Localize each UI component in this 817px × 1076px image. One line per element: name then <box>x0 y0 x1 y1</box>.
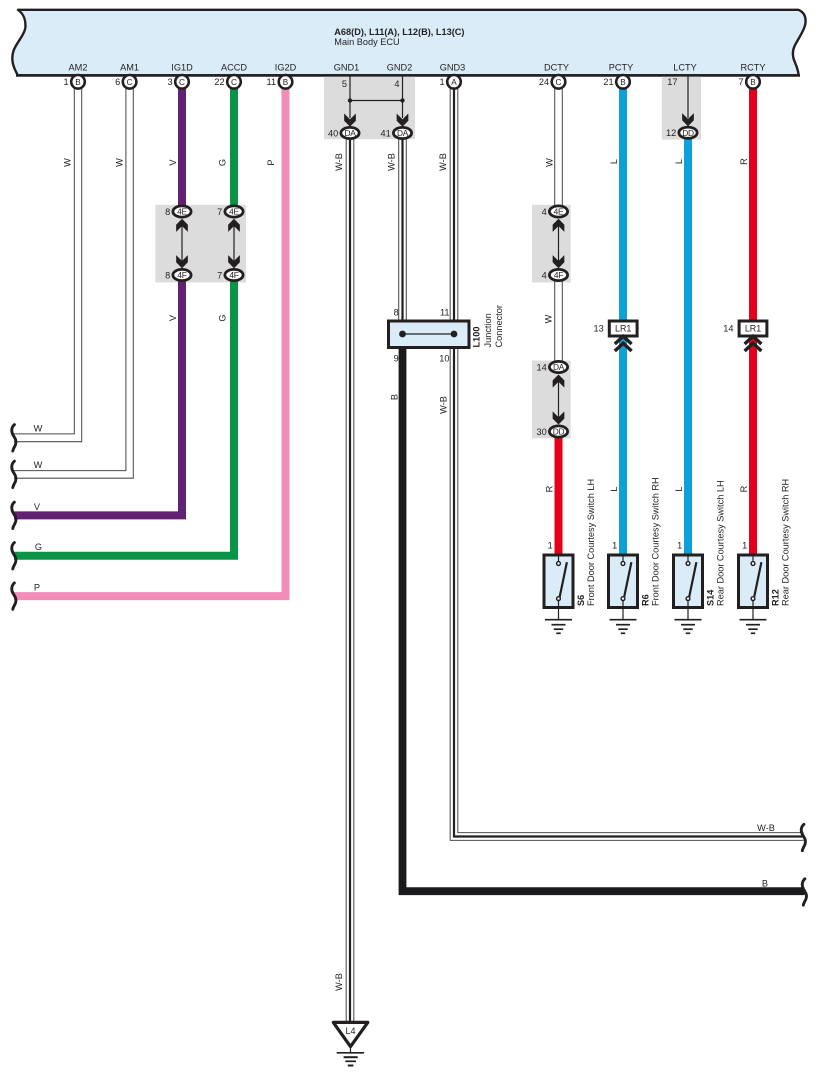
wire AM1 pin 6 white W down then left to frame tear <box>14 86 126 471</box>
ground triangle L4 <box>333 1022 368 1046</box>
svg-text:22: 22 <box>214 77 224 87</box>
svg-text:ACCD: ACCD <box>221 62 247 72</box>
svg-text:24: 24 <box>539 77 549 87</box>
svg-text:W: W <box>34 460 43 470</box>
svg-text:8: 8 <box>165 207 170 217</box>
connector oval DA 41 on GND2 <box>393 127 411 138</box>
svg-text:12: 12 <box>666 128 676 138</box>
svg-text:21: 21 <box>603 77 613 87</box>
svg-text:Junction: Junction <box>483 313 493 347</box>
svg-text:Rear Door Courtesy Switch RH: Rear Door Courtesy Switch RH <box>780 479 790 606</box>
svg-text:DA: DA <box>553 362 565 372</box>
svg-text:GND3: GND3 <box>440 62 466 72</box>
svg-text:L: L <box>609 486 619 491</box>
arrow pair between 4E and 4F at x=558.5 <box>558 222 560 265</box>
switch S14 box <box>674 555 703 608</box>
wire GND2 W-B from DA 41 down to junction connector L100 pin 8 <box>398 139 400 321</box>
svg-text:IG2D: IG2D <box>275 62 297 72</box>
switch R12 lever <box>754 562 761 597</box>
svg-text:1: 1 <box>63 77 68 87</box>
switch S6 box <box>544 555 573 608</box>
switch R12 bottom contact circle <box>751 597 755 601</box>
arrow into connector DA 41 <box>397 114 409 127</box>
svg-text:C: C <box>231 78 237 87</box>
switch S6 top contact lead <box>558 556 560 562</box>
wire GND1 pin 5 thin lead into DA connector <box>349 77 351 119</box>
svg-text:4F: 4F <box>554 270 563 280</box>
shield box around DCTY DA DD connectors <box>532 361 571 439</box>
svg-text:L: L <box>674 486 684 491</box>
junction dot L100 pin 8-9 <box>399 331 406 338</box>
switch R6 bottom contact circle <box>621 597 625 601</box>
svg-text:P: P <box>34 583 40 593</box>
svg-text:A68(D), L11(A), L12(B), L13(C): A68(D), L11(A), L12(B), L13(C) <box>334 27 464 37</box>
connector oval 4E pin 4 on DCTY <box>549 206 567 217</box>
svg-text:L100: L100 <box>471 327 481 348</box>
wire RCTY pin 7 red R down to switch R12 <box>749 86 757 556</box>
terminal PCTY pin 21 circle B <box>616 75 630 89</box>
switch R12 top contact circle <box>751 562 755 566</box>
svg-text:41: 41 <box>380 128 390 138</box>
svg-text:R: R <box>739 485 749 492</box>
svg-text:Front Door Courtesy Switch RH: Front Door Courtesy Switch RH <box>650 477 660 606</box>
wire DCTY white W middle segment 4F to DA <box>554 281 556 362</box>
svg-text:W-B: W-B <box>439 396 449 414</box>
switch S6 top contact circle <box>557 562 561 566</box>
svg-text:B: B <box>75 78 81 87</box>
svg-text:1: 1 <box>548 540 553 550</box>
svg-text:AM1: AM1 <box>120 62 139 72</box>
wire GND3 pin 1 W-B down to junction connector L100 pin 11 <box>449 86 451 334</box>
svg-text:B: B <box>762 878 768 888</box>
svg-text:L: L <box>609 159 619 164</box>
svg-text:GND2: GND2 <box>387 62 413 72</box>
svg-text:V: V <box>34 502 41 512</box>
svg-text:W: W <box>34 423 43 433</box>
ground symbol below L4 <box>337 1052 364 1054</box>
wire DCTY pin 24 white W upper segment <box>554 86 556 206</box>
svg-text:DA: DA <box>397 128 409 138</box>
connector oval 4E pin 7 on ACCD <box>225 206 243 217</box>
frame tear W-B wire right <box>801 824 805 850</box>
switch R6 box <box>609 555 638 608</box>
arrow into connector DA 40 <box>344 114 356 127</box>
terminal AM2 pin 1 circle B <box>71 75 85 89</box>
svg-text:B: B <box>283 78 289 87</box>
svg-text:C: C <box>179 78 185 87</box>
terminal IG2D pin 11 circle B <box>279 75 293 89</box>
switch S14 lever <box>689 562 696 597</box>
svg-text:W: W <box>63 158 73 167</box>
switch S14 bottom contact circle <box>686 597 690 601</box>
svg-text:Main Body ECU: Main Body ECU <box>334 37 399 47</box>
terminal ACCD pin 22 circle C <box>227 75 241 89</box>
shield box around LCTY pin 17 and DD connector <box>662 77 701 140</box>
svg-text:4: 4 <box>542 207 547 217</box>
wire GND2 pin 4 thin lead into DA connector <box>402 77 404 119</box>
ground L4 stem <box>350 1047 352 1053</box>
svg-text:L: L <box>674 159 684 164</box>
svg-text:7: 7 <box>217 207 222 217</box>
double chevron below LR1 pin 14 <box>745 336 762 344</box>
junction dot GND1 tie <box>348 98 352 102</box>
connector oval DA 40 on GND1 <box>341 127 359 138</box>
svg-text:C: C <box>556 78 562 87</box>
frame tear IG2D P wire <box>12 583 16 609</box>
shield box around IG1D ACCD 4E 4F connectors <box>155 205 246 283</box>
svg-text:S14: S14 <box>705 589 715 606</box>
svg-text:R: R <box>545 485 555 492</box>
ECU bottom edge line <box>16 74 800 77</box>
svg-text:5: 5 <box>342 79 347 89</box>
svg-text:13: 13 <box>593 324 603 334</box>
switch R6 top contact lead <box>622 556 624 562</box>
svg-text:6: 6 <box>115 77 120 87</box>
terminal IG1D pin 3 circle C <box>175 75 189 89</box>
switch R6 lever <box>624 562 631 597</box>
svg-text:7: 7 <box>217 270 222 280</box>
svg-text:DCTY: DCTY <box>544 62 569 72</box>
svg-text:IG1D: IG1D <box>171 62 193 72</box>
svg-text:W-B: W-B <box>334 153 344 171</box>
switch R12 top contact lead <box>752 556 754 562</box>
switch S6 bottom contact circle <box>557 597 561 601</box>
frame tear IG1D V wire <box>12 502 16 528</box>
wire W-B from L100 pin 10 down then right to frame tear <box>450 334 803 840</box>
svg-text:W-B: W-B <box>334 973 344 991</box>
svg-text:30: 30 <box>536 427 546 437</box>
svg-text:S6: S6 <box>576 595 586 606</box>
svg-text:4: 4 <box>394 79 399 89</box>
svg-text:9: 9 <box>394 354 399 364</box>
svg-text:R: R <box>739 158 749 165</box>
connector oval 4F pin 7 on ACCD <box>225 269 243 280</box>
switch S6 lever <box>560 562 567 597</box>
ECU connector box A68(D) L11(A) L12(B) L13(C) Main Body ECU <box>12 10 805 76</box>
junction connector L100 box <box>389 321 470 348</box>
svg-text:11: 11 <box>440 308 450 318</box>
svg-text:G: G <box>218 159 228 166</box>
switch R12 box <box>739 555 768 608</box>
wire LCTY pin 17 thin lead into DD connector <box>687 77 689 119</box>
svg-text:DA: DA <box>344 128 356 138</box>
svg-text:Connector: Connector <box>494 305 504 347</box>
svg-text:W-B: W-B <box>757 823 775 833</box>
svg-text:14: 14 <box>536 362 546 372</box>
svg-text:B: B <box>750 78 756 87</box>
svg-text:P: P <box>266 159 276 165</box>
svg-text:7: 7 <box>738 77 743 87</box>
svg-text:V: V <box>168 159 178 166</box>
svg-text:3: 3 <box>167 77 172 87</box>
svg-text:C: C <box>127 78 133 87</box>
svg-text:B: B <box>390 394 400 400</box>
frame tear B wire right <box>802 879 806 905</box>
wire ACCD green G lower segment down then left to frame tear <box>14 281 234 556</box>
junction dot L100 pin 10-11 <box>451 331 458 338</box>
connector LR1 pin 14 <box>739 321 767 336</box>
L100 internal bus line <box>403 333 455 335</box>
wire ACCD pin 22 green G upper segment <box>230 86 238 206</box>
shield box around GND1 GND2 pins and DA connectors <box>324 77 415 139</box>
svg-text:4: 4 <box>542 270 547 280</box>
tie line between GND1 and GND2 leads <box>350 100 403 102</box>
svg-text:RCTY: RCTY <box>740 62 765 72</box>
connector oval DD 12 on LCTY <box>679 127 697 138</box>
svg-text:W: W <box>544 314 554 323</box>
ground symbol below S6 <box>545 619 572 621</box>
arrow pair between DA 14 and DD 30 <box>558 378 560 421</box>
connector oval DD 30 on DCTY <box>549 426 567 437</box>
svg-text:LR1: LR1 <box>745 324 761 334</box>
switch R6 ground lead <box>622 601 624 620</box>
svg-text:4E: 4E <box>554 207 564 217</box>
svg-text:11: 11 <box>267 77 277 87</box>
double chevron below LR1 pin 13 <box>615 336 632 344</box>
svg-text:W-B: W-B <box>438 153 448 171</box>
ground symbol below R6 <box>610 619 637 621</box>
svg-text:40: 40 <box>328 128 338 138</box>
svg-text:10: 10 <box>439 354 449 364</box>
shield box around DCTY 4E 4F connectors <box>532 205 571 283</box>
svg-text:8: 8 <box>165 270 170 280</box>
wire GND1 W-B from DA 40 down to ground L4 <box>345 139 347 1022</box>
arrow pair between 4E and 4F at x=234 <box>233 222 235 265</box>
connector oval 4E pin 8 on IG1D <box>173 206 191 217</box>
connector oval 4F pin 4 on DCTY <box>549 269 567 280</box>
svg-text:PCTY: PCTY <box>609 62 634 72</box>
switch R12 ground lead <box>752 601 754 620</box>
terminal RCTY pin 7 circle B <box>746 75 760 89</box>
connector oval DA 14 on DCTY <box>549 361 567 372</box>
switch S14 ground lead <box>687 601 689 620</box>
switch R6 top contact circle <box>621 562 625 566</box>
svg-text:R12: R12 <box>770 589 780 606</box>
svg-text:1: 1 <box>677 540 682 550</box>
ground symbol below S14 <box>675 619 702 621</box>
wire B thick black from L100 pin 9 down then right to frame tear <box>403 334 805 891</box>
junction dot GND2 tie <box>400 98 404 102</box>
svg-text:Front Door Courtesy Switch LH: Front Door Courtesy Switch LH <box>586 479 596 606</box>
svg-text:W: W <box>115 158 125 167</box>
svg-text:B: B <box>620 78 626 87</box>
svg-text:4F: 4F <box>177 270 186 280</box>
svg-text:LR1: LR1 <box>615 324 631 334</box>
svg-text:L4: L4 <box>345 1026 355 1036</box>
wire GND2 lead inside L100 to junction dot <box>402 321 404 334</box>
svg-text:V: V <box>168 314 178 321</box>
svg-text:GND1: GND1 <box>334 62 360 72</box>
wire IG1D violet V lower segment down then left to frame tear <box>14 281 182 515</box>
arrow pair between 4E and 4F at x=182 <box>181 222 183 265</box>
terminal GND3 pin 1 circle A <box>447 75 461 89</box>
svg-text:G: G <box>218 314 228 321</box>
svg-text:A: A <box>451 78 457 87</box>
svg-text:8: 8 <box>394 308 399 318</box>
wire DCTY red R from DD 30 down to switch S6 <box>555 438 563 556</box>
connector LR1 pin 13 <box>609 321 637 336</box>
svg-text:DD: DD <box>682 128 694 138</box>
frame tear AM1 W wire <box>12 461 16 487</box>
svg-text:R6: R6 <box>640 594 650 606</box>
wire PCTY pin 21 blue L down to switch R6 <box>619 86 627 556</box>
wire IG1D pin 3 violet V upper segment <box>178 86 186 206</box>
svg-text:DD: DD <box>553 427 565 437</box>
svg-text:4E: 4E <box>229 207 239 217</box>
wire AM2 pin 1 white W down then left to frame tear <box>14 86 74 434</box>
switch S14 top contact circle <box>686 562 690 566</box>
switch S6 ground lead <box>558 601 560 620</box>
svg-text:1: 1 <box>439 77 444 87</box>
frame tear AM2 W wire <box>12 425 16 451</box>
ground symbol below R12 <box>740 619 767 621</box>
svg-text:AM2: AM2 <box>69 62 88 72</box>
arrow into connector DD 12 <box>682 113 694 126</box>
svg-text:LCTY: LCTY <box>673 62 697 72</box>
svg-text:Rear Door Courtesy Switch LH: Rear Door Courtesy Switch LH <box>715 480 725 606</box>
svg-text:G: G <box>35 542 42 552</box>
svg-text:17: 17 <box>667 77 677 87</box>
svg-text:W-B: W-B <box>387 153 397 171</box>
terminal AM1 pin 6 circle C <box>123 75 137 89</box>
connector oval 4F pin 8 on IG1D <box>173 269 191 280</box>
svg-text:4E: 4E <box>177 207 187 217</box>
terminal DCTY pin 24 circle C <box>552 75 566 89</box>
wire IG2D pin 11 pink P down then left to frame tear <box>14 86 286 596</box>
svg-text:1: 1 <box>742 540 747 550</box>
svg-text:4F: 4F <box>229 270 238 280</box>
svg-text:W: W <box>545 158 555 167</box>
svg-text:14: 14 <box>723 324 733 334</box>
frame tear ACCD G wire <box>12 543 16 569</box>
svg-text:1: 1 <box>612 540 617 550</box>
wire LCTY blue L from DD 12 down to switch S14 <box>684 139 692 556</box>
switch S14 top contact lead <box>687 556 689 562</box>
